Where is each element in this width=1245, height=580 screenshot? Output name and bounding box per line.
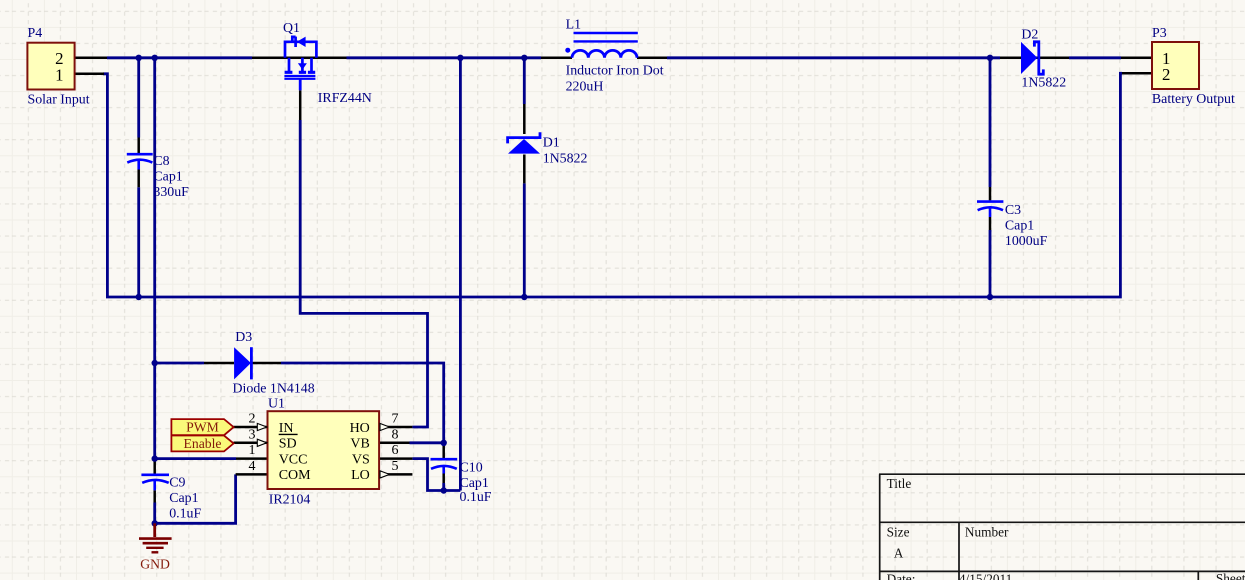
svg-text:U1: U1 [268,397,285,412]
svg-text:SD: SD [279,437,297,452]
svg-text:1N5822: 1N5822 [1021,76,1066,91]
svg-text:1000uF: 1000uF [1005,234,1048,249]
svg-text:Cap1: Cap1 [460,476,489,491]
svg-text:2: 2 [1162,65,1170,84]
svg-text:Solar Input: Solar Input [28,93,90,108]
svg-text:IRFZ44N: IRFZ44N [318,91,372,106]
svg-text:Size: Size [887,525,910,540]
svg-text:D1: D1 [543,136,560,151]
svg-text:D3: D3 [235,330,252,345]
svg-text:COM: COM [279,468,311,483]
svg-text:7: 7 [392,412,399,427]
svg-text:4: 4 [249,459,256,474]
svg-text:HO: HO [350,421,370,436]
svg-text:P3: P3 [1152,26,1167,41]
svg-text:IR2104: IR2104 [269,493,311,508]
svg-text:A: A [894,546,904,561]
svg-text:Q1: Q1 [283,21,300,36]
svg-text:Title: Title [887,476,912,491]
svg-text:PWM: PWM [186,420,219,435]
svg-text:330uF: 330uF [153,185,189,200]
svg-text:VB: VB [350,437,369,452]
svg-text:Enable: Enable [183,436,221,451]
svg-text:5: 5 [392,459,399,474]
svg-text:L1: L1 [566,18,581,33]
svg-text:Diode 1N4148: Diode 1N4148 [233,382,315,397]
svg-text:Cap1: Cap1 [169,491,198,506]
svg-text:8: 8 [392,427,399,442]
svg-text:Date:: Date: [887,572,916,580]
svg-text:Sheet: Sheet [1216,571,1245,580]
svg-text:C8: C8 [153,154,169,169]
svg-text:1: 1 [55,65,63,84]
svg-text:1: 1 [249,443,256,458]
svg-text:220uH: 220uH [566,80,604,95]
svg-text:6: 6 [392,443,399,458]
svg-text:C9: C9 [169,476,185,491]
svg-text:Inductor Iron Dot: Inductor Iron Dot [566,64,664,79]
svg-text:Cap1: Cap1 [153,170,182,185]
svg-text:Cap1: Cap1 [1005,219,1034,234]
svg-text:Battery Output: Battery Output [1152,92,1235,107]
svg-text:LO: LO [351,468,370,483]
svg-text:C3: C3 [1005,203,1021,218]
svg-text:3: 3 [249,427,256,442]
svg-text:D2: D2 [1021,28,1038,43]
svg-text:2: 2 [249,412,256,427]
svg-text:IN: IN [279,421,294,436]
svg-text:GND: GND [140,557,170,572]
svg-text:1N5822: 1N5822 [543,152,588,167]
svg-text:P4: P4 [28,26,43,41]
svg-text:4/15/2011: 4/15/2011 [959,572,1012,580]
svg-text:C10: C10 [460,461,483,476]
svg-text:0.1uF: 0.1uF [460,490,492,505]
svg-text:Number: Number [965,525,1009,540]
svg-text:VS: VS [352,452,370,467]
svg-text:0.1uF: 0.1uF [169,507,201,522]
svg-text:VCC: VCC [279,452,308,467]
